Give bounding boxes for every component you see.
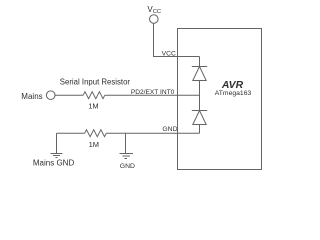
wire Mains to R1 [55,94,83,96]
svg-text:Mains GND: Mains GND [33,158,75,167]
svg-text:Mains: Mains [21,92,42,101]
wire between diodes through PD2 node [199,81,201,111]
wire Mains GND drop [56,133,58,153]
IC U1 AVR ATmega163 body [178,29,262,170]
svg-text:1M: 1M [89,140,99,149]
svg-text:GND: GND [120,163,135,170]
wire GND symbol drop [125,133,127,153]
node VCC terminal circle [150,15,159,24]
wire diode chain bottom segment [199,125,201,134]
svg-text:1M: 1M [88,102,98,111]
diode D2 clamp to GND [192,111,207,125]
wire Mains GND to R2 [57,132,85,134]
svg-text:PD2/EXT INT0: PD2/EXT INT0 [131,89,175,96]
wire R1 to PD2 pin [105,94,200,96]
svg-text:GND: GND [162,126,177,133]
resistor R1 1M serial input resistor [83,92,105,99]
ground symbol GND [120,154,134,159]
wire R2 to GND pin [106,132,199,134]
wire diode chain top segment [199,57,201,67]
node Mains terminal circle [46,91,55,100]
svg-text:Serial Input Resistor: Serial Input Resistor [60,77,131,86]
wire VCC vertical+horizontal to U1 [154,23,200,56]
svg-text:VCC: VCC [162,51,176,58]
svg-text:ATmega163: ATmega163 [215,90,252,97]
ground symbol Mains GND [51,154,63,158]
resistor R2 1M [85,130,107,137]
diode D1 clamp to VCC [192,67,207,81]
